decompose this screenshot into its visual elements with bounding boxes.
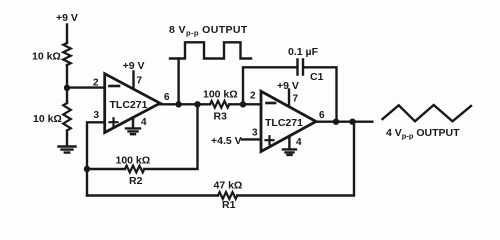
svg-text:+9 V: +9 V <box>123 60 145 72</box>
svg-text:6: 6 <box>164 92 170 103</box>
svg-text:10 kΩ: 10 kΩ <box>33 113 62 125</box>
svg-text:+9 V: +9 V <box>56 12 78 24</box>
svg-text:7: 7 <box>137 76 143 87</box>
svg-text:4: 4 <box>141 117 147 128</box>
svg-text:R3: R3 <box>214 111 228 123</box>
svg-text:0.1 µF: 0.1 µF <box>288 46 319 58</box>
svg-text:8 Vp-p OUTPUT: 8 Vp-p OUTPUT <box>169 24 248 38</box>
svg-text:47 kΩ: 47 kΩ <box>214 180 243 192</box>
svg-text:2: 2 <box>93 78 99 89</box>
svg-text:2: 2 <box>250 91 256 102</box>
svg-text:TLC271: TLC271 <box>110 99 148 111</box>
svg-text:R1: R1 <box>222 199 236 211</box>
svg-text:4 Vp-p OUTPUT: 4 Vp-p OUTPUT <box>386 127 460 141</box>
svg-text:+4.5 V: +4.5 V <box>211 135 242 147</box>
svg-text:C1: C1 <box>310 71 324 83</box>
svg-text:6: 6 <box>319 110 325 121</box>
svg-text:TLC271: TLC271 <box>265 117 303 129</box>
svg-text:7: 7 <box>293 94 299 105</box>
svg-text:100 kΩ: 100 kΩ <box>116 155 151 167</box>
svg-text:R2: R2 <box>129 175 143 187</box>
svg-text:100 kΩ: 100 kΩ <box>203 89 238 101</box>
svg-text:4: 4 <box>296 137 302 148</box>
svg-text:10 kΩ: 10 kΩ <box>32 51 61 63</box>
svg-text:3: 3 <box>94 110 100 121</box>
svg-text:3: 3 <box>252 128 258 139</box>
svg-text:+9 V: +9 V <box>277 80 299 92</box>
